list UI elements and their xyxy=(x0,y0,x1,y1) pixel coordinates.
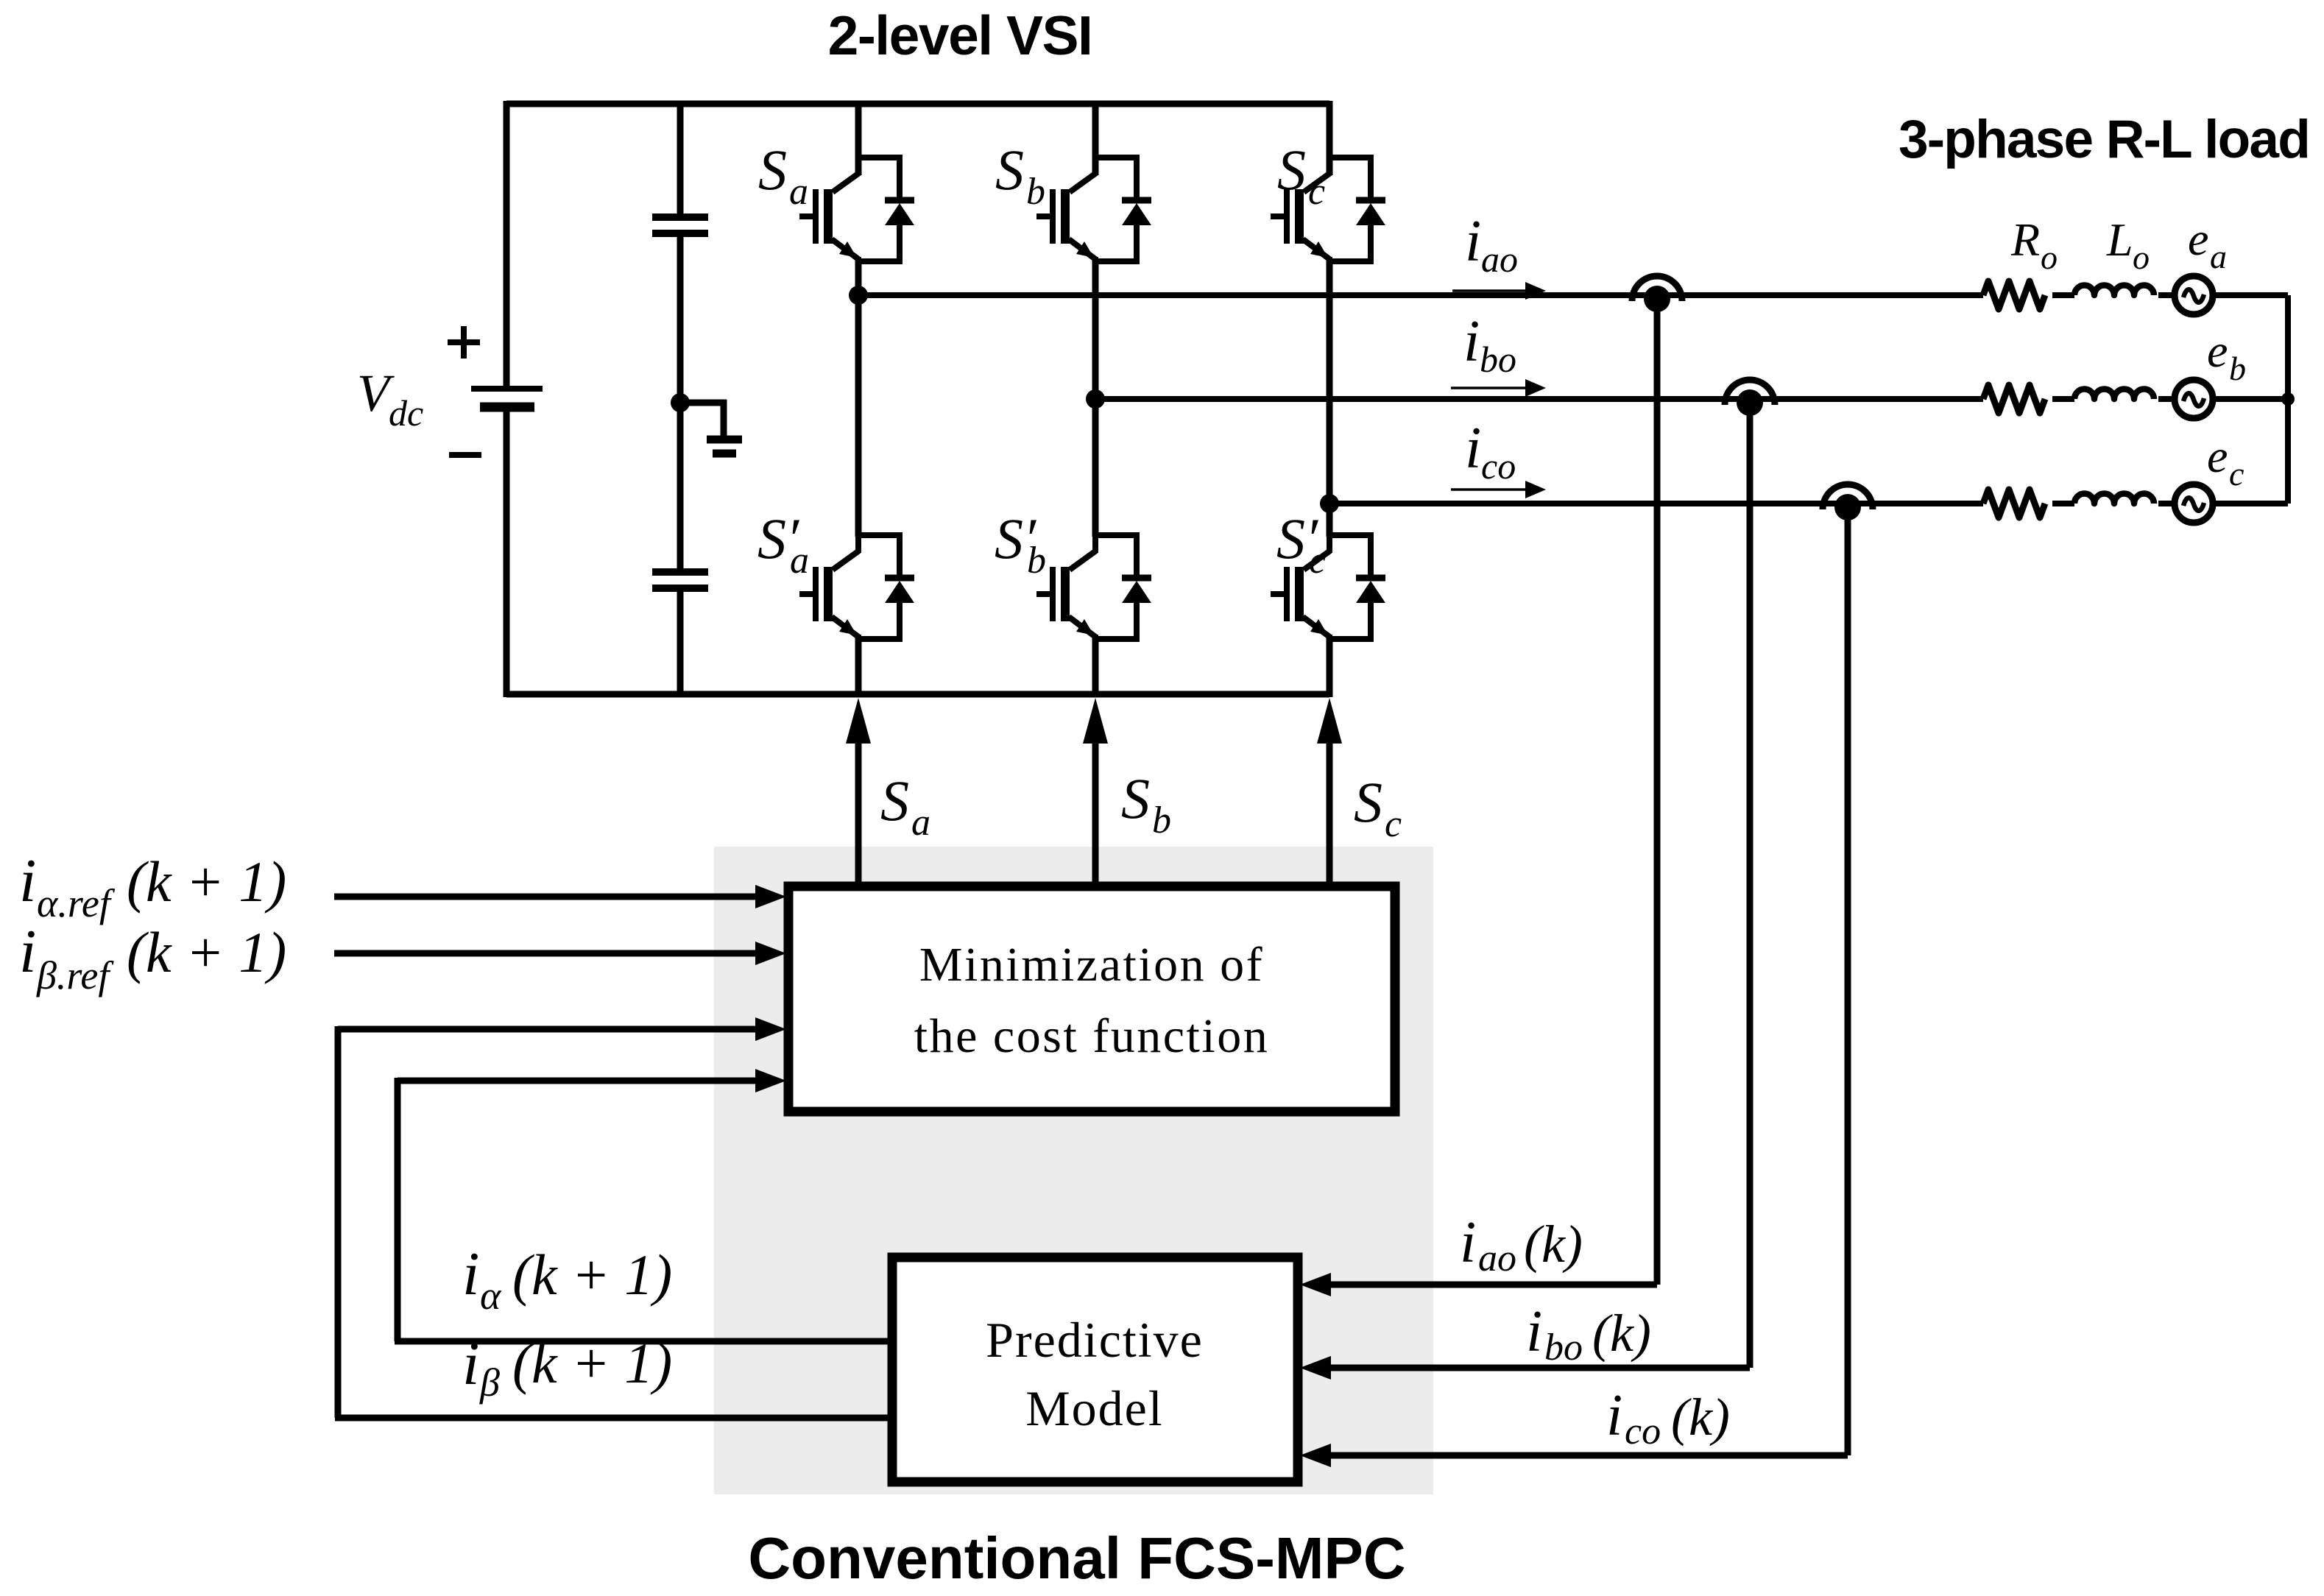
svg-text:Conventional FCS-MPC: Conventional FCS-MPC xyxy=(748,1525,1405,1591)
sensor c feedback vertical xyxy=(1845,504,1851,1455)
feedback i_co(k) wire with arrow xyxy=(1325,1452,1848,1459)
svg-text:ao: ao xyxy=(1481,239,1518,280)
phase leg a wires xyxy=(858,101,1329,697)
phase a output line xyxy=(858,295,2288,504)
svg-text:(k + 1): (k + 1) xyxy=(512,1243,672,1307)
input arrow 4 (from i_alpha feedback) xyxy=(398,1078,758,1084)
capacitor C1 xyxy=(652,217,708,233)
svg-text:i: i xyxy=(1460,1210,1476,1275)
svg-text:i: i xyxy=(19,847,36,915)
svg-text:b: b xyxy=(1026,171,1045,213)
phase leg c wires xyxy=(1327,101,1333,175)
gate line Sa with up arrow xyxy=(855,740,862,886)
svg-text:(k + 1): (k + 1) xyxy=(127,920,286,984)
feedback vertical outer (i_beta) xyxy=(335,1026,342,1418)
svg-text:Model: Model xyxy=(1025,1380,1164,1436)
svg-text:i: i xyxy=(1465,416,1481,481)
wire: ground tap xyxy=(680,403,724,436)
svg-text:bo: bo xyxy=(1544,1327,1583,1369)
transistor Sb xyxy=(1036,155,1151,264)
current sensor b xyxy=(1725,380,1775,416)
svg-text:c: c xyxy=(2229,455,2244,492)
svg-text:i: i xyxy=(462,1240,479,1308)
svg-text:o: o xyxy=(2133,239,2150,276)
wire: capacitor rail segments xyxy=(677,101,684,217)
gate line Sb with up arrow xyxy=(1092,740,1099,886)
svg-text:e: e xyxy=(2207,325,2228,377)
svg-text:(k + 1): (k + 1) xyxy=(512,1331,672,1395)
minus sign xyxy=(449,452,481,458)
wire: left wall top (to battery) xyxy=(504,101,510,389)
input arrow i_beta.ref xyxy=(334,950,758,957)
svg-text:a: a xyxy=(2210,238,2227,275)
svg-text:o: o xyxy=(2041,239,2058,276)
svg-text:a: a xyxy=(911,802,930,844)
transistor S'c xyxy=(1271,532,1385,642)
resistor Ro / inductor Lo / source ea (phase a) xyxy=(1983,276,2213,314)
ground xyxy=(707,439,742,453)
svg-text:e: e xyxy=(2188,213,2208,265)
wire: bottom DC bus xyxy=(506,691,1329,698)
svg-text:3-phase R-L load: 3-phase R-L load xyxy=(1899,110,2309,169)
svg-text:ao: ao xyxy=(1478,1237,1516,1279)
svg-text:α.ref: α.ref xyxy=(37,881,116,925)
svg-text:i: i xyxy=(1465,209,1481,274)
right neutral bus xyxy=(2285,295,2291,504)
svg-text:b: b xyxy=(1027,540,1046,582)
svg-text:i: i xyxy=(1463,309,1480,374)
svg-text:i: i xyxy=(1606,1383,1622,1448)
svg-text:R: R xyxy=(2010,213,2040,266)
svg-text:a: a xyxy=(789,171,808,213)
battery Vdc plates xyxy=(471,389,543,407)
sensor a feedback vertical xyxy=(1654,295,1661,1285)
wire i_alpha(k+1) xyxy=(395,1338,892,1345)
box: Minimization of the cost function xyxy=(788,886,1395,1112)
svg-text:α: α xyxy=(480,1274,502,1318)
box: Predictive Model xyxy=(892,1257,1298,1482)
current sensor a xyxy=(1632,276,1682,312)
svg-text:L: L xyxy=(2106,213,2133,266)
svg-text:S: S xyxy=(1277,138,1306,202)
svg-text:co: co xyxy=(1625,1410,1661,1452)
feedback vertical inner (i_alpha) xyxy=(395,1078,401,1341)
feedback i_bo(k) wire with arrow xyxy=(1325,1365,1750,1371)
svg-text:S: S xyxy=(1121,766,1150,830)
capacitor C2 xyxy=(652,572,708,588)
svg-text:S: S xyxy=(1354,770,1382,834)
svg-text:(k): (k) xyxy=(1671,1388,1730,1447)
wire: left wall bottom (battery to bus) xyxy=(504,409,510,697)
sensor b feedback vertical xyxy=(1747,399,1753,1368)
plus sign xyxy=(448,326,481,455)
svg-text:c: c xyxy=(1309,540,1326,582)
svg-text:i: i xyxy=(1526,1299,1542,1364)
svg-text:the cost function: the cost function xyxy=(914,1009,1269,1063)
svg-text:Minimization of: Minimization of xyxy=(919,938,1264,992)
svg-text:S: S xyxy=(758,138,787,202)
phase leg b wires xyxy=(1092,104,1099,175)
svg-text:b: b xyxy=(1152,799,1171,841)
svg-text:e: e xyxy=(2207,430,2228,482)
svg-text:β: β xyxy=(479,1360,500,1405)
svg-text:β.ref: β.ref xyxy=(36,953,114,997)
svg-text:(k): (k) xyxy=(1592,1304,1651,1363)
wire: top DC bus xyxy=(506,101,1329,107)
svg-text:co: co xyxy=(1481,445,1516,487)
phase c output line xyxy=(1329,501,1983,506)
svg-text:i: i xyxy=(19,917,36,986)
svg-text:2-level VSI: 2-level VSI xyxy=(828,4,1092,66)
phase b output line xyxy=(1095,396,1983,402)
resistor Ro / inductor Lo / source ec (phase c) xyxy=(1983,484,2213,523)
feedback i_ao(k) wire with arrow into Predictive Model xyxy=(1325,1282,1657,1288)
node a dot xyxy=(849,286,868,305)
resistor Ro / inductor Lo / source eb (phase b) xyxy=(1983,380,2213,418)
svg-text:c: c xyxy=(1308,171,1325,213)
svg-text:b: b xyxy=(2229,350,2246,387)
svg-text:(k + 1): (k + 1) xyxy=(127,850,286,914)
gate line Sc with up arrow xyxy=(1327,740,1333,886)
current sensor c xyxy=(1823,484,1873,520)
svg-text:S: S xyxy=(880,769,909,833)
svg-text:(k): (k) xyxy=(1524,1215,1583,1274)
transistor Sa xyxy=(799,155,914,264)
wire i_beta(k+1) xyxy=(335,1415,892,1422)
node b dot xyxy=(1086,389,1105,409)
junction dot at cap midpoint xyxy=(671,393,690,412)
junction dot right bus phase b xyxy=(2281,392,2295,406)
FCS-MPC gray region xyxy=(714,847,1433,1494)
transistor S'b xyxy=(1036,532,1151,642)
svg-text:i: i xyxy=(462,1330,479,1398)
svg-text:bo: bo xyxy=(1480,339,1516,380)
input arrow 3 (from i_beta feedback) xyxy=(338,1026,758,1033)
svg-text:a: a xyxy=(790,540,809,582)
input arrow i_alpha.ref xyxy=(334,894,758,900)
svg-text:Predictive: Predictive xyxy=(986,1312,1204,1368)
node c dot xyxy=(1320,494,1339,513)
svg-text:S: S xyxy=(995,138,1024,202)
transistor S'a xyxy=(799,532,914,642)
svg-text:dc: dc xyxy=(389,392,423,434)
transistor Sc xyxy=(1271,155,1385,264)
svg-text:c: c xyxy=(1385,803,1402,845)
